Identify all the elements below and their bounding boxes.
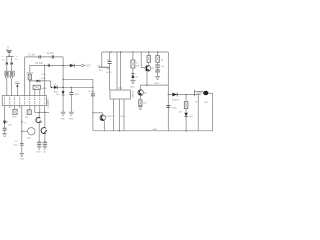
wire branch C — [120, 52, 122, 90]
wire — [4, 125, 6, 129]
svg-text:C2 10n: C2 10n — [46, 52, 54, 55]
node junction — [44, 65, 45, 66]
capacitor C8 — [20, 143, 24, 145]
wire — [113, 99, 115, 131]
microphone MIC1 — [21, 128, 35, 135]
capacitor C9 polarized — [36, 118, 41, 123]
svg-text:10k: 10k — [143, 102, 147, 104]
svg-text:GND: GND — [20, 158, 25, 160]
svg-text:VDR: VDR — [12, 117, 17, 119]
svg-text:10u: 10u — [43, 152, 46, 154]
svg-text:4148: 4148 — [41, 78, 47, 80]
battery BT1 — [6, 51, 12, 52]
wire — [11, 78, 13, 95]
svg-text:D1: D1 — [2, 59, 6, 61]
svg-text:2k2: 2k2 — [179, 111, 183, 113]
svg-text:BC: BC — [152, 68, 155, 70]
resistor R1 — [28, 74, 31, 80]
wire — [132, 78, 134, 81]
wire — [49, 81, 51, 87]
svg-text:GND: GND — [60, 119, 65, 121]
svg-text:ant: ant — [15, 80, 18, 83]
ground — [37, 146, 42, 149]
wire branch A — [109, 52, 111, 61]
wire net B — [50, 86, 93, 88]
wire riser pin9 — [44, 65, 46, 95]
wire — [70, 87, 72, 92]
ground — [20, 154, 25, 157]
wire — [9, 106, 11, 108]
node junction — [44, 112, 45, 113]
svg-text:+: + — [33, 122, 35, 124]
ground — [130, 80, 135, 83]
capacitor C10 — [37, 142, 41, 146]
wire — [148, 62, 150, 65]
svg-text:ZD: ZD — [135, 76, 138, 78]
resistor R3 — [27, 110, 31, 115]
wire — [38, 112, 40, 117]
wire net D — [35, 106, 49, 113]
wire — [209, 92, 213, 94]
wire — [39, 90, 41, 96]
resistor R6 — [156, 56, 160, 63]
ground — [155, 76, 160, 79]
diode D2 — [11, 62, 13, 65]
wire — [29, 106, 31, 110]
wire — [197, 95, 199, 131]
node junction — [92, 112, 93, 113]
svg-text:R1 10k: R1 10k — [27, 73, 35, 75]
svg-text:D2: D2 — [15, 59, 19, 61]
wire — [74, 65, 81, 67]
J1 pin dots bottom — [4, 101, 45, 102]
capacitor C3 — [48, 64, 49, 67]
svg-text:LED: LED — [8, 124, 13, 126]
svg-text:IC3: IC3 — [119, 88, 123, 90]
jack plug BU1 — [195, 90, 209, 97]
wire mic branch — [21, 106, 23, 144]
node junction — [62, 87, 63, 88]
svg-text:NE555: NE555 — [133, 90, 135, 97]
svg-text:1N4007: 1N4007 — [172, 99, 180, 101]
svg-text:100n: 100n — [13, 144, 17, 146]
ground rail bottom — [93, 130, 213, 132]
polarity mark — [21, 122, 27, 125]
capacitor C11 — [43, 142, 47, 146]
resistor R4 — [131, 60, 135, 68]
transistor T3 — [138, 85, 144, 96]
svg-text:D4: D4 — [54, 84, 58, 86]
wire — [157, 72, 159, 77]
svg-text:C1 10n: C1 10n — [28, 54, 36, 57]
wire — [11, 56, 13, 71]
node junction — [71, 87, 72, 88]
wire — [139, 105, 141, 106]
svg-text:a: a — [2, 56, 4, 58]
svg-text:GND: GND — [130, 87, 135, 89]
capacitor C2 — [52, 55, 53, 58]
svg-text:LED: LED — [189, 116, 194, 118]
wire — [140, 52, 142, 68]
wire — [92, 79, 94, 94]
node junction — [63, 79, 64, 80]
node junction — [168, 94, 169, 95]
svg-text:MIC: MIC — [27, 138, 31, 140]
wire — [44, 112, 46, 127]
wire riser pin6 with resistor — [29, 65, 31, 95]
node junction — [186, 94, 187, 95]
wire — [19, 106, 21, 108]
wire — [92, 96, 94, 113]
IC3 box — [110, 90, 131, 99]
wire — [4, 130, 6, 133]
transistor T2 — [145, 65, 151, 71]
svg-text:5W: 5W — [136, 66, 139, 68]
svg-text:1k: 1k — [136, 63, 139, 65]
capacitor C7 — [3, 128, 7, 130]
antenna symbol — [15, 83, 19, 87]
wire — [139, 96, 141, 100]
capacitor C1 — [39, 55, 40, 58]
capacitor C12 polarized — [108, 61, 112, 63]
wire — [34, 90, 36, 96]
wire — [44, 134, 46, 142]
J1 pins row top — [5, 97, 45, 99]
svg-text:VCC: VCC — [99, 70, 104, 72]
zener diode D8 — [131, 74, 134, 78]
svg-text:R3: R3 — [25, 117, 29, 119]
diode D5 — [70, 64, 74, 68]
wire — [212, 93, 214, 131]
node junction — [8, 56, 9, 57]
resistor R7 — [139, 100, 142, 106]
wire — [63, 65, 70, 67]
node junction — [120, 51, 121, 52]
wire — [14, 106, 16, 110]
svg-text:BU1: BU1 — [204, 102, 209, 104]
node junction — [51, 87, 52, 88]
wire — [6, 56, 8, 71]
resistor R8 — [184, 102, 188, 109]
node junction — [111, 51, 112, 52]
ground — [43, 146, 48, 149]
wire — [21, 145, 23, 153]
wire — [4, 106, 6, 121]
wire — [185, 95, 187, 102]
capacitor C5 — [69, 93, 73, 95]
J1 pin dots top — [4, 99, 45, 100]
wire — [101, 52, 103, 67]
diode D4 — [54, 86, 57, 90]
svg-text:10u: 10u — [161, 66, 165, 68]
wire W1 — [140, 84, 168, 86]
svg-text:63V: 63V — [106, 69, 110, 71]
svg-text:9V: 9V — [162, 58, 164, 61]
node junction — [132, 51, 133, 52]
wire — [185, 109, 187, 113]
connector X1 body — [5, 71, 14, 76]
wire — [93, 112, 103, 114]
wire — [38, 123, 40, 142]
wire — [92, 113, 94, 131]
node junction — [62, 65, 63, 66]
node junction — [29, 80, 30, 81]
wire — [123, 99, 125, 131]
connector header J1 — [2, 96, 46, 106]
node junction — [148, 51, 149, 52]
capacitor C13 polarized — [155, 62, 160, 67]
wire riser pin5 — [24, 57, 26, 96]
node junction — [39, 112, 40, 113]
wire V1 — [62, 57, 64, 91]
diode D9 — [172, 93, 177, 97]
wire net W2 — [30, 64, 63, 66]
wire — [132, 52, 134, 60]
wire W2 — [168, 94, 194, 96]
node junction — [157, 51, 158, 52]
svg-text:C9: C9 — [15, 141, 18, 143]
capacitor C15 — [166, 105, 170, 107]
connector X1 prong 1 — [6, 76, 8, 78]
net tag bar — [99, 66, 110, 68]
wire net A — [63, 78, 93, 80]
svg-text:CD4060: CD4060 — [48, 98, 50, 107]
diode D3 — [37, 80, 40, 83]
svg-text:100n: 100n — [36, 152, 40, 154]
diode D1 — [6, 62, 8, 65]
wire — [185, 117, 187, 131]
wire — [6, 55, 14, 57]
svg-text:GND: GND — [154, 83, 159, 85]
wire — [141, 67, 145, 69]
node junction — [186, 130, 187, 131]
capacitor C6 — [91, 94, 95, 96]
varistor R2 — [13, 109, 17, 114]
connector X1 prong 2 — [11, 76, 13, 78]
ground — [138, 107, 143, 110]
J1 pins row bottom — [5, 103, 45, 105]
ground — [69, 112, 74, 115]
svg-text:C7: C7 — [113, 116, 116, 118]
svg-text:1u: 1u — [24, 122, 26, 124]
wire — [70, 95, 72, 113]
wire — [8, 53, 10, 57]
node junction — [146, 85, 147, 86]
svg-text:5.6V: 5.6V — [42, 74, 47, 76]
svg-text:GND: GND — [152, 129, 157, 131]
crystal Q1 — [33, 85, 40, 89]
ground — [2, 133, 7, 136]
transistor T1 — [100, 113, 106, 131]
ground — [61, 112, 66, 115]
wire — [119, 99, 121, 131]
wire net W3 — [30, 80, 51, 82]
svg-text:b: b — [16, 56, 18, 58]
wire — [157, 52, 159, 56]
svg-text:BC: BC — [144, 92, 147, 94]
wire — [16, 87, 18, 96]
resistor R5 — [147, 56, 151, 63]
diode D6 — [62, 91, 65, 95]
wire right edge — [167, 52, 169, 131]
wire net W1 — [25, 56, 63, 58]
svg-text:VCC: VCC — [85, 65, 90, 68]
node junction — [92, 87, 93, 88]
LED D10 — [184, 113, 187, 117]
svg-text:4MHz: 4MHz — [41, 88, 46, 90]
power rail top right — [102, 51, 169, 53]
svg-text:C3 10n: C3 10n — [35, 62, 43, 65]
node junction — [119, 130, 120, 131]
svg-text:470u: 470u — [74, 94, 80, 96]
wire — [148, 52, 150, 56]
svg-text:D6: D6 — [56, 94, 60, 96]
svg-text:C6 10n: C6 10n — [88, 91, 96, 93]
wire — [109, 63, 111, 90]
wire — [62, 95, 64, 112]
svg-text:100n: 100n — [172, 107, 178, 109]
capacitor C14 — [155, 67, 160, 72]
wire branch B — [116, 52, 118, 90]
LED D7 — [3, 121, 8, 125]
svg-text:GND: GND — [69, 119, 74, 121]
wire — [6, 78, 8, 95]
wire — [146, 72, 148, 86]
wire — [132, 68, 134, 74]
net arrow VCC — [82, 64, 85, 67]
transistor T4 — [41, 128, 47, 134]
